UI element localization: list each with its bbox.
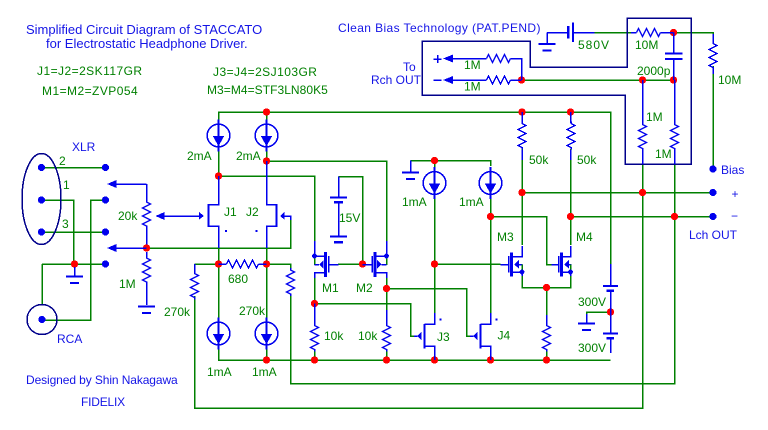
current source 1mA 4 <box>255 318 278 350</box>
resistor 1M to Rch plus <box>487 55 522 81</box>
wire 50k2 bottom to -out junction <box>570 149 572 217</box>
svg-text:Simplified Circuit Diagram of: Simplified Circuit Diagram of STACCATO <box>26 22 262 37</box>
node +out 1M riser <box>639 189 646 196</box>
wire 1M box resistor 1 lower <box>642 160 644 193</box>
node XLR ground <box>71 260 78 267</box>
svg-text:1M: 1M <box>646 110 663 124</box>
wire M4 source drop to mid junction <box>547 275 571 288</box>
wire J2 drain to M2 top <box>267 161 387 241</box>
svg-text:270k: 270k <box>239 304 266 318</box>
resistor 270k 1 <box>191 264 199 300</box>
wire M2 source node to J4 gate <box>387 277 471 336</box>
wire 1mA4 bottom lead <box>266 346 268 360</box>
node rail J4 <box>487 356 494 363</box>
node 300V battery mid <box>607 308 614 315</box>
arrow plus to Rch <box>443 55 487 63</box>
svg-text:50k: 50k <box>529 153 549 167</box>
node input 20k bottom <box>143 244 150 251</box>
wire 1mA pair top with ground stub <box>411 161 491 167</box>
mosfet M4 <box>552 246 573 277</box>
wire 2mA1 bottom to J1 drain dot <box>218 148 220 177</box>
node rail 2mA2 <box>263 108 270 115</box>
ground 580V <box>539 44 556 51</box>
jfet J2 <box>256 161 291 248</box>
wire J4 drain riser <box>490 217 492 314</box>
node gates M1 M2 <box>359 260 366 267</box>
mosfet M2 <box>363 241 389 278</box>
svg-text:J1: J1 <box>224 205 237 219</box>
svg-text:1mA: 1mA <box>252 365 277 379</box>
node -out 1M riser <box>671 213 678 220</box>
minus sign in box <box>434 79 442 81</box>
svg-text:1M: 1M <box>464 58 481 72</box>
current source 1mA 1 <box>423 167 446 199</box>
wire -out junction down to M4 drain <box>570 217 572 246</box>
node 1M a top <box>639 76 646 83</box>
svg-text:M4: M4 <box>576 230 593 244</box>
resistor unlabeled near M3 M4 <box>543 315 551 352</box>
resistor 1M box a <box>639 80 647 164</box>
svg-text:Lch OUT: Lch OUT <box>689 228 738 242</box>
battery 300V upper <box>603 264 618 312</box>
svg-text:M1: M1 <box>322 281 339 295</box>
wire 1mA1 top lead <box>434 161 436 173</box>
node J1 drain <box>215 172 222 179</box>
current source 1mA 2 <box>479 167 502 199</box>
node J2 drain <box>263 157 270 164</box>
pin XLR plug 2 <box>102 164 109 171</box>
wire J3 source drop <box>434 348 436 360</box>
wire 270k1 top <box>195 263 219 265</box>
svg-text:J3=J4=2SJ103GR: J3=J4=2SJ103GR <box>213 65 317 79</box>
resistor 1M (input) <box>143 252 151 305</box>
wire 50k1 junction down to M3 drain <box>521 193 523 246</box>
svg-text:J2: J2 <box>246 205 259 219</box>
svg-text:−: − <box>731 209 738 223</box>
node rail 546 resistor <box>543 356 550 363</box>
node 580V/10M junction <box>670 29 677 36</box>
pin XLR plug 4 <box>102 260 109 267</box>
resistor 270k 2 <box>287 268 295 296</box>
svg-text:1mA: 1mA <box>207 365 232 379</box>
battery 300V lower <box>603 312 618 353</box>
svg-text:Clean Bias Technology (PAT.PEN: Clean Bias Technology (PAT.PEND) <box>338 21 541 35</box>
wire 50k1 bottom to +out row <box>522 149 713 193</box>
svg-text:Bias: Bias <box>721 163 744 177</box>
wire M2 source to 10k2 <box>386 289 388 319</box>
svg-text:300V: 300V <box>578 295 606 309</box>
node J1 source <box>215 260 222 267</box>
resistor 20k (pot) <box>143 184 151 245</box>
wire bottom rail A <box>219 346 611 360</box>
node 1mA2 bottom <box>487 213 494 220</box>
jfet J4 <box>470 313 498 360</box>
svg-text:10M: 10M <box>718 73 741 87</box>
wire mid junction to 546 resistor <box>546 288 548 319</box>
wire 2mA2 bottom to J2 drain dot <box>266 148 268 162</box>
jfet J3 <box>414 313 442 360</box>
svg-text:15V: 15V <box>339 211 360 225</box>
svg-text:1M: 1M <box>655 147 672 161</box>
node rail 10k1 <box>311 356 318 363</box>
pin XLR socket 2 <box>38 164 45 171</box>
pot wiper arrow <box>156 212 200 220</box>
svg-text:10k: 10k <box>358 329 378 343</box>
wire J1 drain to M1 gate <box>219 176 315 241</box>
wire 270k1 to rail B to +out riser <box>195 193 643 409</box>
svg-text:for Electrostatic Headphone Dr: for Electrostatic Headphone Driver. <box>46 36 248 51</box>
svg-text:1mA: 1mA <box>402 195 427 209</box>
node 1mA1 bottom M3 gate <box>431 260 438 267</box>
svg-text:300V: 300V <box>578 341 606 355</box>
wire 300V mid junction to ground stub <box>587 312 611 316</box>
wire 1M box resistor 2 lower <box>674 160 676 217</box>
node 50k1 bottom <box>518 189 525 196</box>
node 50k2 bottom <box>567 213 574 220</box>
svg-text:680: 680 <box>228 272 248 286</box>
resistor 10k 2 <box>383 310 391 352</box>
RCA jack circle <box>27 305 57 335</box>
svg-text:10M: 10M <box>635 38 658 52</box>
wire RCA barrel drop <box>41 264 43 305</box>
svg-text:1M: 1M <box>464 80 481 94</box>
svg-text:Designed by Shin Nakagawa: Designed by Shin Nakagawa <box>26 373 178 387</box>
wire 2mA2 top <box>266 112 268 124</box>
svg-text:1mA: 1mA <box>459 195 484 209</box>
svg-text:J3: J3 <box>437 330 450 344</box>
wire 15V battery top to gates node <box>339 177 363 265</box>
svg-text:20k: 20k <box>118 209 138 223</box>
jfet J1 <box>195 176 227 248</box>
node J2 source <box>263 260 270 267</box>
pin RCA center <box>38 316 45 323</box>
wire J1 source column to 1mA3 <box>218 227 220 323</box>
wire 1mA2 bottom to M4 gate <box>491 195 552 265</box>
pin XLR plug 1 <box>102 196 109 203</box>
wire J4 source drop <box>490 348 492 360</box>
node rail 1mA4 <box>263 356 270 363</box>
ground 300V mid <box>578 314 595 330</box>
capacitor 2000p <box>665 33 683 81</box>
node M3 M4 source tie <box>543 284 550 291</box>
resistor 10M vertical <box>709 34 717 74</box>
resistor 680 <box>219 260 267 268</box>
wire 10M to bias branch <box>674 33 714 35</box>
svg-text:XLR: XLR <box>72 140 96 154</box>
node M1 source <box>311 300 318 307</box>
arrow minus to Rch <box>443 76 487 84</box>
battery 580V <box>547 23 595 44</box>
wire 546 resistor bottom lead <box>546 350 548 360</box>
resistor 50k 1 <box>518 112 526 160</box>
node 1mA pair top <box>431 157 438 164</box>
arrow to XLR top <box>107 180 147 188</box>
svg-text:M3: M3 <box>497 230 514 244</box>
svg-text:2000p: 2000p <box>637 64 671 78</box>
wire XLR pin1 plug to RCA pin <box>42 200 106 320</box>
svg-text:+: + <box>732 187 739 201</box>
wire clean bias node row <box>522 79 674 81</box>
wire M1 mid tap to gates node <box>338 263 363 265</box>
svg-text:RCA: RCA <box>57 332 82 346</box>
svg-text:3: 3 <box>62 217 69 231</box>
pin XLR socket 3 <box>38 228 45 235</box>
ground XLR <box>66 267 83 283</box>
resistor 10M horizontal <box>631 29 674 37</box>
wire M3 source drop to mid junction <box>522 275 547 288</box>
wire 580V battery to 10M <box>594 32 631 34</box>
current source 2mA 2 <box>255 120 278 152</box>
plus sign in box <box>434 55 442 63</box>
wire J2 source column to 1mA4 <box>266 227 268 323</box>
svg-text:50k: 50k <box>577 153 597 167</box>
wire 10M vertical to Bias terminal <box>712 66 714 169</box>
svg-text:To: To <box>403 60 416 74</box>
wire J2 source dot to 270k2 top <box>267 264 291 268</box>
wire 10k1 bottom lead <box>314 350 316 360</box>
mosfet M3 <box>501 246 525 277</box>
svg-text:1M: 1M <box>119 277 136 291</box>
svg-text:J4: J4 <box>498 329 511 343</box>
svg-text:580V: 580V <box>578 38 610 52</box>
svg-text:FIDELIX: FIDELIX <box>81 395 125 409</box>
svg-text:2mA: 2mA <box>187 149 212 163</box>
svg-text:2mA: 2mA <box>236 149 261 163</box>
current source 2mA 1 <box>207 120 230 152</box>
wire -out row <box>571 216 714 218</box>
terminal minus out <box>709 213 716 220</box>
node M2 source <box>383 285 390 292</box>
clean bias outline box <box>422 18 691 164</box>
pin XLR socket 1 <box>38 196 45 203</box>
wire M1 source node to J3 gate <box>315 277 415 336</box>
current source 1mA 3 <box>207 318 230 350</box>
wire 1mA1 bottom to M3 gate row <box>435 195 501 265</box>
svg-text:10k: 10k <box>324 329 344 343</box>
resistor 1M box b <box>671 80 679 164</box>
ground input 1M <box>138 307 155 314</box>
svg-text:Rch OUT: Rch OUT <box>371 73 422 87</box>
battery 15V (two cells) <box>330 177 347 243</box>
wire XLR pin1 socket to ground column <box>42 200 74 264</box>
wire 270k2 to rail C to -out riser <box>291 217 675 384</box>
node clean-bias divider left <box>518 76 525 83</box>
node 2000p bottom <box>670 76 677 83</box>
node rail 10k2 <box>383 356 390 363</box>
resistor 10k 1 <box>311 304 319 352</box>
wire XLR pin2 row <box>42 167 106 169</box>
wire input node: 20k bottom junction to J2 gate riser <box>147 218 291 249</box>
wire 2mA top rail <box>219 112 611 265</box>
svg-text:J1=J2=2SK117GR: J1=J2=2SK117GR <box>37 64 142 78</box>
resistor 50k 2 <box>567 112 575 160</box>
node rail 50k2 <box>567 108 574 115</box>
wire ground row to XLR plug pin4 <box>42 263 106 265</box>
terminal Bias <box>709 165 716 172</box>
wire 10k2 bottom lead <box>386 350 388 360</box>
svg-text:M1=M2=ZVP054: M1=M2=ZVP054 <box>42 84 138 98</box>
wire XLR pin3 row <box>42 231 106 233</box>
terminal plus out <box>709 189 716 196</box>
node rail J3 <box>431 356 438 363</box>
node rail 50k1 <box>518 108 525 115</box>
pin XLR plug 3 <box>102 228 109 235</box>
arrow to XLR bottom <box>107 244 147 252</box>
svg-text:2: 2 <box>59 154 66 168</box>
wire J3 drain riser <box>434 264 436 314</box>
mosfet M1 <box>312 241 338 278</box>
svg-text:1: 1 <box>63 178 70 192</box>
resistor 1M to Rch minus <box>487 76 522 84</box>
wire M1 source to 10k1 <box>314 304 316 319</box>
svg-text:M3=M4=STF3LN80K5: M3=M4=STF3LN80K5 <box>207 83 328 97</box>
ground 1mA pair <box>402 161 419 180</box>
XLR connector ellipse <box>22 154 61 245</box>
svg-text:270k: 270k <box>164 305 191 319</box>
svg-text:M2: M2 <box>356 281 373 295</box>
